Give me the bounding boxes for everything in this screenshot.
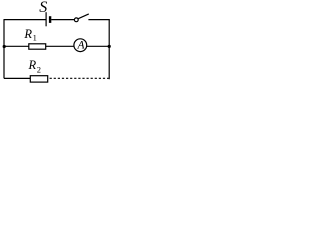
svg-text:R: R	[28, 58, 37, 72]
svg-text:S: S	[39, 0, 47, 16]
svg-text:A: A	[77, 40, 86, 52]
svg-text:2: 2	[37, 64, 41, 74]
svg-text:1: 1	[33, 32, 37, 42]
svg-text:R: R	[23, 27, 32, 41]
